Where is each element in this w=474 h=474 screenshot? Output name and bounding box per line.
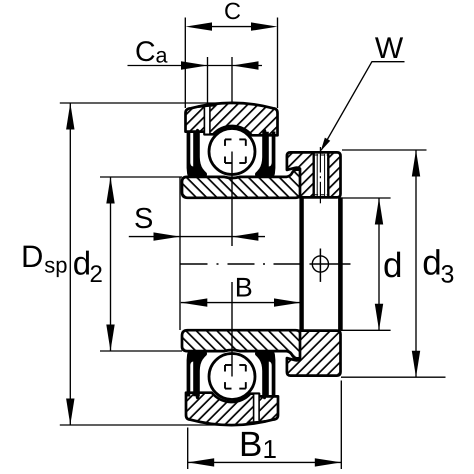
svg-text:W: W	[375, 32, 404, 65]
svg-text:C: C	[224, 0, 241, 24]
svg-text:a: a	[156, 44, 168, 68]
svg-text:sp: sp	[44, 252, 67, 277]
svg-text:S: S	[134, 203, 153, 235]
svg-text:1: 1	[263, 434, 277, 464]
svg-text:d: d	[383, 246, 402, 285]
svg-text:2: 2	[90, 261, 103, 288]
svg-text:3: 3	[441, 260, 455, 288]
svg-text:d: d	[73, 245, 91, 282]
svg-text:D: D	[21, 239, 43, 274]
svg-text:B: B	[239, 425, 262, 464]
svg-text:C: C	[135, 36, 156, 68]
svg-text:B: B	[235, 272, 253, 302]
svg-text:d: d	[422, 244, 441, 283]
